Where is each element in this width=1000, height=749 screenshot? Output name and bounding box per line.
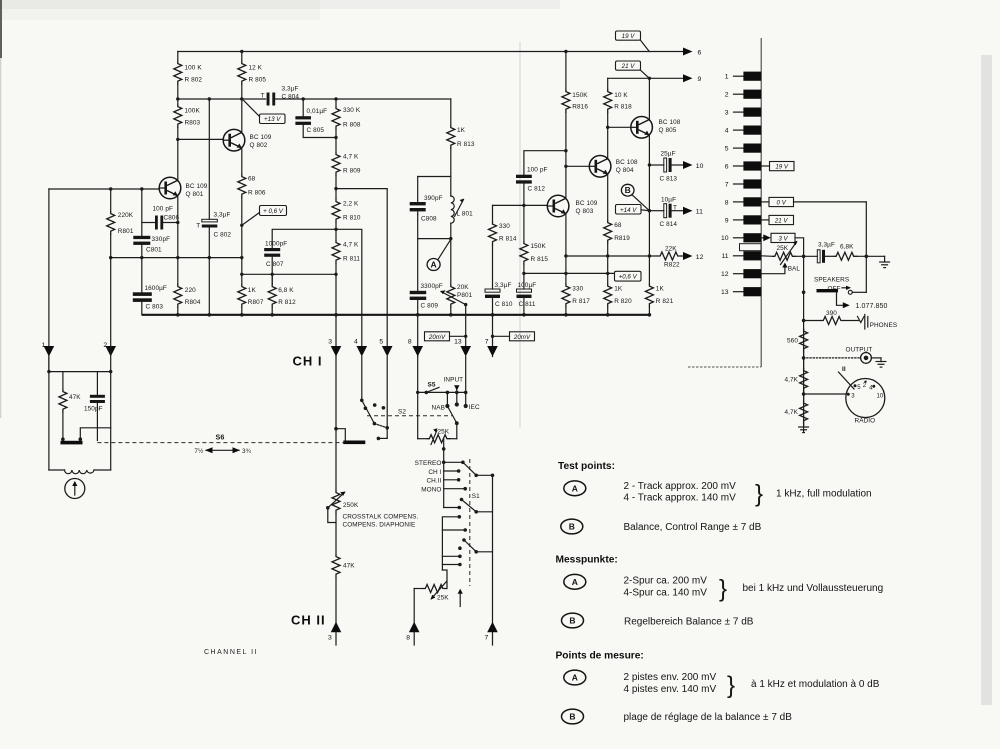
wire y=273.4 to +0.6V <box>524 272 614 274</box>
svg-text:3: 3 <box>725 110 729 117</box>
svg-text:A: A <box>572 673 578 683</box>
resistor 47K lower <box>332 554 340 578</box>
svg-text:R 802: R 802 <box>185 77 203 84</box>
group 3 <box>462 538 466 542</box>
svg-text:10 K: 10 K <box>614 92 628 99</box>
resistor 4,7K upper <box>800 368 808 392</box>
svg-text:1K: 1K <box>457 127 466 134</box>
capacitor C812 100pF <box>524 151 566 175</box>
svg-text:7½: 7½ <box>194 447 204 455</box>
svg-text:B: B <box>625 185 631 195</box>
svg-text:9: 9 <box>725 217 729 224</box>
NAB contact <box>446 392 448 406</box>
wire: Q801 emitter down <box>177 196 179 284</box>
svg-text:390pF: 390pF <box>424 195 443 202</box>
svg-text:100µF: 100µF <box>518 282 537 289</box>
voltage box +14V <box>616 205 642 215</box>
line 5 <box>382 346 393 357</box>
capacitor 150pF <box>96 372 98 395</box>
resistor R807 1K <box>238 284 246 308</box>
svg-text:RADIO: RADIO <box>855 418 876 425</box>
inductor L801 <box>450 177 452 197</box>
wire: 21V rail to pin 9 <box>608 77 684 79</box>
resistor R801 220K <box>110 189 112 211</box>
svg-text:8: 8 <box>408 339 412 346</box>
resistor R810 2,2K <box>332 199 340 223</box>
right edge gray strip <box>981 55 992 705</box>
20mV box right <box>493 335 510 337</box>
resistor R819 68 <box>604 220 612 244</box>
svg-text:R 806: R 806 <box>248 190 266 197</box>
resistor R803 100K <box>174 104 182 128</box>
svg-text:R807: R807 <box>248 299 264 306</box>
node: R816 top junction <box>564 50 567 53</box>
wire: collector rail y=99 left segment <box>178 98 266 100</box>
connector bottom edge <box>688 366 761 368</box>
svg-text:12: 12 <box>696 254 704 261</box>
svg-text:21 V: 21 V <box>774 218 789 225</box>
capacitor C811 100uF <box>517 289 532 292</box>
scan seam x=520 <box>519 42 521 428</box>
svg-text:100K: 100K <box>185 108 201 115</box>
wire: rail down to R802 <box>177 52 179 62</box>
svg-text:S5: S5 <box>428 382 436 389</box>
node R809/R810 <box>334 187 337 190</box>
wire to C807 <box>272 229 336 248</box>
svg-text:Balance, Control Range ± 7 dB: Balance, Control Range ± 7 dB <box>624 522 762 533</box>
0V net wire <box>794 201 867 203</box>
line to bottom triangle 8 <box>413 589 415 646</box>
resistor R805 12K <box>238 61 246 85</box>
svg-text:plage de réglage de la balance: plage de réglage de la balance ± 7 dB <box>624 712 793 723</box>
line 8 <box>417 315 419 357</box>
potentiometer 25K lower <box>423 585 447 593</box>
resistor 560 <box>800 329 808 353</box>
node <box>140 187 143 190</box>
svg-text:25K: 25K <box>437 595 449 602</box>
svg-text:25K: 25K <box>777 245 789 252</box>
svg-text:Q 802: Q 802 <box>250 142 268 149</box>
svg-text:11: 11 <box>696 209 703 216</box>
svg-text:3,3µF: 3,3µF <box>214 212 231 219</box>
svg-text:CH I: CH I <box>428 469 441 476</box>
node <box>109 187 112 190</box>
node: C806 junction <box>176 221 179 224</box>
svg-text:R 809: R 809 <box>343 168 361 175</box>
capacitor C810 3,3uF <box>492 246 494 290</box>
svg-text:1600µF: 1600µF <box>145 285 167 292</box>
svg-text:Q 804: Q 804 <box>616 167 634 174</box>
svg-text:+14 V: +14 V <box>620 207 637 214</box>
capacitor C815 3,3uF <box>817 250 820 263</box>
svg-text:R 814: R 814 <box>499 236 517 243</box>
svg-text:2-Spur ca. 200 mV: 2-Spur ca. 200 mV <box>624 576 708 587</box>
group 2 <box>444 507 460 509</box>
svg-text:4 - Track approx. 140 mV: 4 - Track approx. 140 mV <box>624 493 737 504</box>
svg-text:9: 9 <box>698 76 702 83</box>
node C805 tap <box>302 97 305 100</box>
svg-text:1K: 1K <box>656 286 665 293</box>
svg-text:R 805: R 805 <box>249 77 267 84</box>
wire R816 bottom = Q803 collector net <box>565 113 567 199</box>
wire to line 4 <box>336 229 362 346</box>
P801 wiper to line 13 <box>441 292 466 305</box>
transistor Q805 BC108 <box>631 117 653 139</box>
tap down to S1 <box>443 439 445 508</box>
line 13 lower <box>465 357 467 407</box>
potentiometer P801 20K <box>450 239 452 284</box>
svg-text:68: 68 <box>614 222 622 229</box>
voltage box +0,6V <box>615 271 642 281</box>
svg-text:Messpunkte:: Messpunkte: <box>556 555 618 566</box>
svg-text:4: 4 <box>725 128 729 135</box>
svg-text:7: 7 <box>485 339 489 346</box>
node: rail257 crossing <box>176 256 179 259</box>
svg-text:BC 109: BC 109 <box>250 134 272 141</box>
down to 25K lower <box>442 570 447 589</box>
capacitor C801 330pF <box>141 189 143 236</box>
svg-text:330: 330 <box>499 223 510 230</box>
wire Q804 base <box>566 165 589 167</box>
svg-text:A: A <box>572 484 578 494</box>
svg-text:3 V: 3 V <box>778 235 788 242</box>
svg-text:220K: 220K <box>118 212 134 219</box>
resistor R806 68 <box>241 148 243 174</box>
svg-text:10: 10 <box>696 163 704 170</box>
svg-text:+0,6 V: +0,6 V <box>619 274 638 281</box>
wire: Q801 collector up <box>177 139 179 180</box>
node C812 tap <box>564 149 567 152</box>
svg-text:4,7 K: 4,7 K <box>343 242 359 249</box>
svg-text:CROSSTALK COMPENS.: CROSSTALK COMPENS. <box>343 514 419 521</box>
line 2 continues <box>110 347 112 471</box>
S6 dashed link <box>97 442 344 444</box>
svg-text:2: 2 <box>103 342 107 349</box>
svg-text:6,8K: 6,8K <box>840 244 854 251</box>
capacitor C803 1600uF <box>141 258 143 293</box>
capacitor C808 390pF <box>410 202 426 205</box>
node: Q802 base junction <box>176 138 179 141</box>
wire Q805 emitter down <box>648 135 650 284</box>
resistor 4,7K lower <box>800 401 808 425</box>
svg-text:2: 2 <box>863 383 867 389</box>
capacitor C805 0,01uF <box>302 99 304 116</box>
svg-text:IEC: IEC <box>469 404 480 411</box>
svg-text:C 805: C 805 <box>307 127 325 134</box>
svg-text:3: 3 <box>328 339 332 346</box>
link to line 5 <box>374 424 387 428</box>
svg-text:560: 560 <box>787 338 798 345</box>
arrow to pin 9 <box>683 74 693 82</box>
svg-text:P801: P801 <box>457 292 473 299</box>
svg-text:8: 8 <box>725 199 729 206</box>
svg-text:S6: S6 <box>216 433 225 442</box>
wire: rail y=257.6 <box>111 257 242 259</box>
svg-text:13: 13 <box>721 289 729 296</box>
svg-text:1K: 1K <box>248 287 257 294</box>
node rail257 <box>240 256 243 259</box>
line 4 <box>357 346 368 357</box>
test point B <box>621 184 634 196</box>
resistor R815 150K <box>523 205 525 241</box>
svg-text:INPUT: INPUT <box>444 377 464 384</box>
resistor R802 100K <box>174 61 182 85</box>
svg-text:22K: 22K <box>665 246 677 253</box>
svg-text:5: 5 <box>725 146 729 153</box>
svg-text:}: } <box>727 672 735 699</box>
svg-text:à 1 kHz et modulation à 0 dB: à 1 kHz et modulation à 0 dB <box>751 679 880 690</box>
line 7 <box>492 315 494 357</box>
svg-text:100 K: 100 K <box>185 65 203 72</box>
svg-text:Q 805: Q 805 <box>659 127 677 134</box>
svg-text:3: 3 <box>328 635 332 642</box>
svg-text:C 811: C 811 <box>519 301 536 308</box>
wire pot to C815 <box>796 255 817 257</box>
svg-text:4,7K: 4,7K <box>784 377 798 384</box>
wire rail to R805 <box>241 52 243 62</box>
svg-text:330pF: 330pF <box>152 236 171 243</box>
node Q804 base tap <box>564 165 567 168</box>
node: Q805 collector junction <box>648 77 651 80</box>
potentiometer 250K crosstalk <box>332 490 340 514</box>
svg-text:R801: R801 <box>118 228 134 235</box>
capacitor C809 3300pF <box>417 239 419 291</box>
transistor Q804 BC108 <box>589 156 611 178</box>
capacitor C807 1000pF <box>264 248 280 251</box>
pointer <box>244 101 260 117</box>
svg-text:2,2 K: 2,2 K <box>343 201 359 208</box>
svg-text:R804: R804 <box>185 299 201 306</box>
svg-text:C801: C801 <box>146 247 162 254</box>
wire R818 to Q804 collector <box>607 113 609 159</box>
svg-text:S2: S2 <box>398 409 406 416</box>
svg-text:19 V: 19 V <box>775 164 789 171</box>
svg-text:6,8 K: 6,8 K <box>278 287 294 294</box>
svg-text:47K: 47K <box>69 394 81 401</box>
svg-text:1: 1 <box>725 74 729 81</box>
resistor R813 1K <box>450 99 452 125</box>
svg-text:C 813: C 813 <box>660 176 678 183</box>
wire to line 5 <box>336 189 387 347</box>
svg-text:3,3µF: 3,3µF <box>818 242 835 249</box>
wire: base line y=189 <box>49 188 159 190</box>
svg-text:0 V: 0 V <box>777 200 787 207</box>
svg-text:MONO: MONO <box>421 486 441 493</box>
svg-text:BC 109: BC 109 <box>186 183 208 190</box>
resistor R820 1K <box>604 284 612 308</box>
svg-text:11: 11 <box>721 253 728 260</box>
S2 dashed link <box>367 415 452 417</box>
svg-text:R822: R822 <box>664 262 680 269</box>
node R815 bottom <box>522 272 525 275</box>
left edge dark line <box>0 0 2 58</box>
svg-text:C 807: C 807 <box>266 261 284 268</box>
resistor R809 4,7K <box>332 152 340 176</box>
svg-text:R819: R819 <box>614 235 630 242</box>
ground right <box>884 256 886 262</box>
transistor Q801 BC109 <box>159 177 181 199</box>
svg-text:CH.II: CH.II <box>426 478 441 485</box>
transformer box bottom + coil <box>49 469 65 471</box>
node: Q802 collector <box>240 97 243 100</box>
svg-text:T: T <box>196 223 200 230</box>
svg-text:R816: R816 <box>572 104 588 111</box>
svg-text:220: 220 <box>185 287 196 294</box>
svg-text:R 820: R 820 <box>614 298 632 305</box>
svg-text:Points de mesure:: Points de mesure: <box>556 651 644 662</box>
svg-text:2: 2 <box>725 92 729 99</box>
resistor R808 330K <box>335 99 337 106</box>
wire Q805 collector up <box>648 78 650 120</box>
S5 arm <box>426 387 439 392</box>
wiper stub <box>459 591 461 607</box>
svg-text:1 kHz, full modulation: 1 kHz, full modulation <box>776 489 872 500</box>
node C807 bottom on line274 <box>271 273 274 276</box>
node R808 top <box>334 97 337 100</box>
svg-text:2 pistes env. 200 mV: 2 pistes env. 200 mV <box>624 672 717 683</box>
svg-text:}: } <box>719 576 727 603</box>
svg-text:19 V: 19 V <box>622 33 636 40</box>
svg-text:C806: C806 <box>164 215 180 222</box>
svg-text:R 812: R 812 <box>278 299 296 306</box>
svg-text:B: B <box>569 616 575 626</box>
svg-text:S1: S1 <box>472 493 480 500</box>
svg-text:150K: 150K <box>572 92 588 99</box>
wire Q803 emitter down <box>565 214 567 284</box>
arrow to pin 6 <box>683 48 693 56</box>
svg-text:C 803: C 803 <box>146 304 164 311</box>
wire Q805 base <box>608 126 631 128</box>
svg-text:7: 7 <box>725 181 729 188</box>
svg-text:COMPENS. DIAPHONIE: COMPENS. DIAPHONIE <box>343 522 416 529</box>
svg-text:12 K: 12 K <box>249 65 263 72</box>
svg-text:12: 12 <box>721 271 729 278</box>
svg-text:CH I: CH I <box>293 354 323 369</box>
svg-text:6: 6 <box>698 49 702 56</box>
voltage box +0,6V <box>260 206 287 216</box>
capacitor C802 3,3uF + T <box>208 99 210 219</box>
svg-text:3: 3 <box>851 394 855 400</box>
svg-text:5: 5 <box>379 339 383 346</box>
svg-text:1000pF: 1000pF <box>265 241 287 248</box>
U link <box>458 515 462 519</box>
S1 dashed <box>469 459 471 586</box>
page scan artifacts: top noise band <box>0 0 560 9</box>
node R810/R811 <box>334 228 337 231</box>
svg-text:2 - Track approx. 200 mV: 2 - Track approx. 200 mV <box>624 481 737 492</box>
wire line y=274.3 <box>242 273 336 275</box>
resistor R817 330 <box>562 284 570 308</box>
svg-text:CH II: CH II <box>291 613 326 628</box>
svg-text:4 pistes env. 140 mV: 4 pistes env. 140 mV <box>624 684 717 695</box>
svg-text:330 K: 330 K <box>343 107 361 114</box>
svg-text:3,3µF: 3,3µF <box>282 86 299 93</box>
svg-text:C 812: C 812 <box>528 186 546 193</box>
voltage box +13V <box>260 114 286 124</box>
wire R803 to base junction <box>177 128 179 139</box>
svg-text:PHONES: PHONES <box>870 322 898 329</box>
wire: y=99 right segment <box>275 98 451 100</box>
svg-text:6: 6 <box>725 163 729 170</box>
line 3 <box>335 315 337 357</box>
svg-text:Test points:: Test points: <box>558 461 615 472</box>
node tank bottom <box>449 237 452 240</box>
arrow 2 triangle <box>105 346 116 357</box>
pointer <box>243 213 260 225</box>
wire R802-R803 <box>177 85 179 104</box>
svg-text:4: 4 <box>354 339 358 346</box>
S6 contact bar <box>61 437 65 441</box>
svg-text:C 810: C 810 <box>495 301 513 308</box>
svg-text:47K: 47K <box>343 563 355 570</box>
svg-text:0,01µF: 0,01µF <box>307 108 328 115</box>
svg-text:25K: 25K <box>438 429 450 436</box>
node <box>140 256 143 259</box>
node R801 bottom <box>109 256 112 259</box>
resistor R821 1K <box>645 284 653 308</box>
wire: 19V top rail to pin 6 <box>178 51 684 53</box>
tank circuit frame <box>418 176 451 178</box>
svg-text:R 813: R 813 <box>457 141 475 148</box>
arrow 1 triangle <box>44 346 55 357</box>
resistor R811 4,7K <box>332 240 340 264</box>
svg-text:C 809: C 809 <box>421 303 439 310</box>
resistor 6,8K <box>825 255 834 257</box>
svg-text:21 V: 21 V <box>621 63 636 70</box>
pot 25K BAL <box>761 255 772 257</box>
svg-text:STEREO: STEREO <box>415 460 442 467</box>
svg-text:Q 801: Q 801 <box>186 191 204 198</box>
S2 arm (NAB switch) <box>447 406 456 423</box>
svg-text:25µF: 25µF <box>661 151 676 158</box>
svg-text:10µF: 10µF <box>661 197 676 204</box>
capacitor C814 10uF + arrow 11 <box>649 210 663 212</box>
node <box>334 136 337 139</box>
svg-text:C 814: C 814 <box>660 221 678 228</box>
transistor Q803 BC109 <box>547 195 569 217</box>
svg-text:10: 10 <box>721 235 729 242</box>
1.077.850 arrow <box>837 293 847 306</box>
line 3 lower to 250K <box>335 357 337 491</box>
svg-text:R 815: R 815 <box>531 256 549 263</box>
svg-text:68: 68 <box>248 176 256 183</box>
connector edge line <box>760 38 762 367</box>
wire y=256 + resistor R822 22K + arrow 12 <box>566 255 658 257</box>
svg-text:4,7K: 4,7K <box>784 409 798 416</box>
svg-text:bei 1 kHz und Vollaussteuerung: bei 1 kHz und Vollaussteuerung <box>743 583 884 594</box>
node: R805 top junction <box>240 50 243 53</box>
svg-text:}: } <box>755 481 763 508</box>
resistor R814 330 <box>492 205 494 221</box>
svg-text:4,7 K: 4,7 K <box>343 154 359 161</box>
svg-text:R 821: R 821 <box>656 298 674 305</box>
line 8 lower <box>417 357 419 439</box>
svg-text:B: B <box>569 522 575 532</box>
node +0,6V tap <box>240 224 243 227</box>
svg-text:BC 108: BC 108 <box>616 159 638 166</box>
svg-text:C808: C808 <box>421 216 437 223</box>
wire R805 to collector node <box>241 85 243 133</box>
resistor 47K <box>62 372 64 389</box>
svg-text:100 pF: 100 pF <box>527 167 548 174</box>
wire 21V rail to R818 <box>607 78 609 89</box>
line 13 <box>460 346 471 357</box>
svg-text:SPEAKERS: SPEAKERS <box>814 277 849 284</box>
wire Q804 emitter down <box>607 174 609 220</box>
wire Q803 base line <box>493 204 548 206</box>
svg-text:3,3µF: 3,3µF <box>495 282 512 289</box>
pointer wire 21V box <box>641 70 650 78</box>
